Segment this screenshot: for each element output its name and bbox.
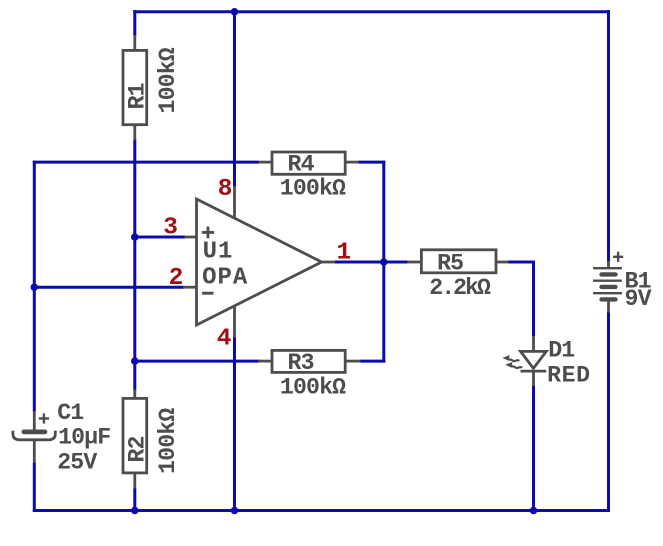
wire R4 right to corner bbox=[358, 161, 385, 164]
node junction pin3 bbox=[131, 233, 139, 241]
svg-text:OPA: OPA bbox=[202, 265, 248, 292]
svg-text:100kΩ: 100kΩ bbox=[155, 408, 181, 474]
pin 3 stub bbox=[185, 236, 197, 239]
node junction pin2 left rail bbox=[31, 283, 39, 291]
node junction y361 bbox=[131, 357, 139, 365]
svg-text:U1: U1 bbox=[203, 239, 234, 266]
node junction bottom rail pin4 bbox=[231, 507, 239, 515]
wire bottom rail bbox=[33, 509, 610, 512]
light arrow upper bbox=[508, 359, 519, 361]
node junction top rail bbox=[231, 8, 239, 16]
wire pin8 vertical bbox=[233, 10, 236, 186]
resistor R3 bbox=[258, 350, 361, 400]
svg-text:3: 3 bbox=[163, 214, 178, 241]
bottom cup plate bbox=[13, 431, 55, 440]
svg-text:R5: R5 bbox=[437, 251, 463, 277]
svg-text:D1: D1 bbox=[548, 337, 574, 363]
pin 4 stub bbox=[233, 306, 236, 338]
svg-text:10µF: 10µF bbox=[58, 424, 110, 450]
svg-text:9V: 9V bbox=[625, 286, 652, 312]
wire R3 right to corner bbox=[360, 360, 385, 363]
svg-text:RED: RED bbox=[547, 362, 591, 388]
svg-text:8: 8 bbox=[218, 176, 233, 203]
wire R5 right to corner bbox=[508, 261, 535, 264]
svg-text:25V: 25V bbox=[57, 450, 97, 476]
plus mark bbox=[39, 417, 49, 419]
svg-text:100kΩ: 100kΩ bbox=[280, 175, 346, 201]
capacitor C1 bbox=[13, 400, 110, 476]
svg-text:R1: R1 bbox=[125, 83, 151, 109]
svg-text:R2: R2 bbox=[125, 436, 151, 462]
pin 2 stub bbox=[183, 286, 197, 289]
svg-text:2.2kΩ: 2.2kΩ bbox=[429, 275, 491, 301]
node junction output bbox=[380, 258, 388, 266]
wire battery top bbox=[607, 10, 610, 261]
wire left rail lower bbox=[33, 463, 36, 513]
op-amp U1 bbox=[183, 186, 335, 338]
short thick plates bbox=[602, 272, 616, 276]
LED D1 bbox=[502, 336, 590, 388]
minus mark bbox=[202, 292, 213, 295]
top plate bbox=[24, 430, 45, 435]
pin 1 stub bbox=[322, 261, 335, 264]
svg-text:100kΩ: 100kΩ bbox=[280, 375, 346, 401]
svg-text:R3: R3 bbox=[288, 350, 314, 376]
wire pin2 horizontal bbox=[34, 286, 183, 289]
svg-text:R4: R4 bbox=[288, 151, 315, 177]
svg-text:4: 4 bbox=[217, 325, 232, 352]
light arrow lower bbox=[511, 366, 522, 368]
resistor R1 bbox=[123, 35, 181, 140]
wire R4R3 vertical bbox=[382, 161, 385, 363]
resistor R2 bbox=[123, 390, 181, 489]
wire left rail upper bbox=[33, 161, 36, 412]
svg-text:C1: C1 bbox=[57, 400, 83, 426]
pin 8 stub bbox=[233, 186, 236, 218]
wire R2 bottom bbox=[133, 488, 136, 513]
resistor R4 bbox=[259, 151, 359, 201]
wire pin3 horizontal bbox=[135, 236, 185, 239]
plus mark bbox=[613, 256, 623, 258]
battery B1 bbox=[593, 252, 651, 313]
wire output pin1 bbox=[335, 261, 408, 264]
svg-text:1: 1 bbox=[337, 240, 352, 267]
node junction bottom rail LED bbox=[530, 507, 538, 515]
wire R1 bottom to R2 top bbox=[133, 139, 136, 391]
plus mark bbox=[202, 231, 214, 234]
wire pin4 to bottom rail bbox=[233, 337, 236, 512]
long plates bbox=[593, 267, 622, 269]
wire LED top bbox=[532, 261, 535, 337]
node junction bottom rail R2 bbox=[131, 507, 139, 515]
wire battery bottom bbox=[607, 313, 610, 513]
svg-text:2: 2 bbox=[169, 265, 184, 292]
wire top rail bbox=[133, 10, 608, 13]
wire R1 top bbox=[133, 10, 136, 36]
wire LED bottom bbox=[532, 386, 535, 512]
wire y361 left to R3 bbox=[135, 360, 260, 363]
wire y162 left to R4 bbox=[33, 161, 259, 164]
resistor R5 bbox=[407, 250, 508, 301]
svg-text:100kΩ: 100kΩ bbox=[155, 47, 181, 113]
